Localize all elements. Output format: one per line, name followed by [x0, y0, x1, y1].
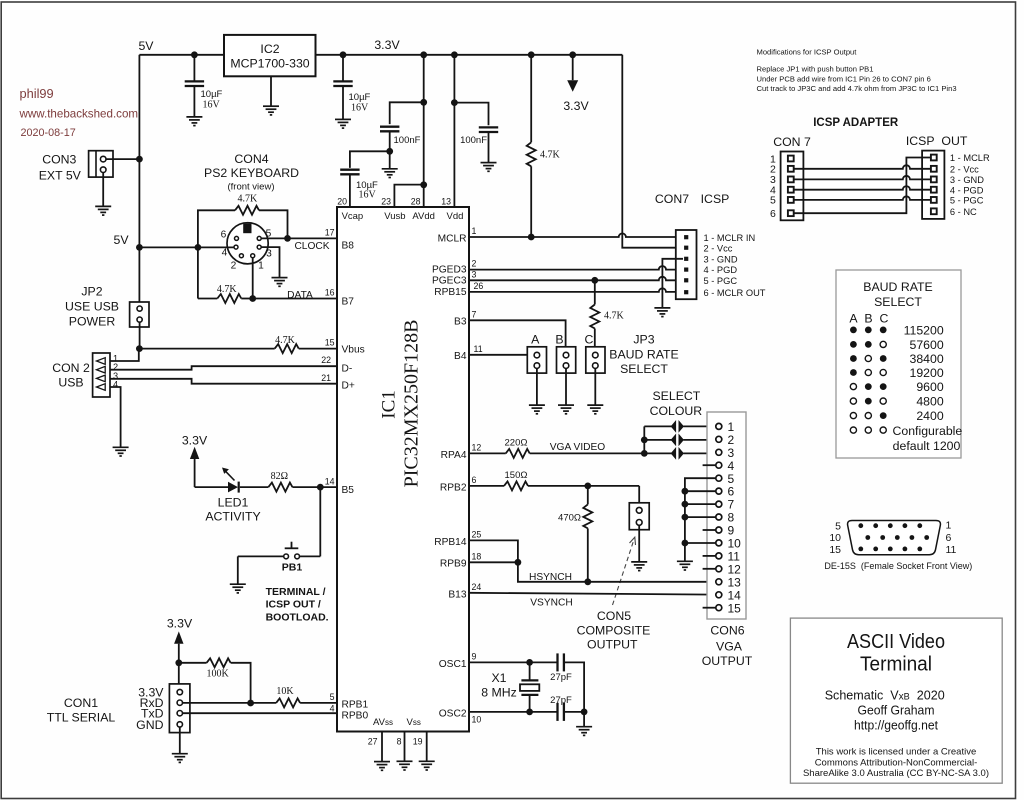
- CON6 pin 12: [716, 566, 722, 572]
- wire R5 left: [179, 662, 207, 664]
- wire RPB9: [469, 561, 518, 563]
- table dot: [865, 341, 872, 348]
- DE15 hole: [873, 523, 878, 528]
- svg-text:CON5: CON5: [597, 609, 631, 623]
- svg-text:2: 2: [472, 259, 477, 269]
- push button PB1: [295, 554, 300, 559]
- svg-text:150Ω: 150Ω: [505, 470, 528, 481]
- svg-text:9: 9: [728, 524, 735, 538]
- table dot: [850, 398, 856, 404]
- junction HSYNCH-470: [584, 578, 591, 585]
- wire CON6 gnd pin: [685, 516, 716, 518]
- svg-text:7: 7: [472, 309, 477, 319]
- svg-text:9600: 9600: [916, 380, 944, 394]
- wire CON3 gnd: [102, 173, 104, 207]
- wire CON6 pin 9 stub: [703, 529, 716, 531]
- ground Vss 19: [419, 761, 435, 770]
- svg-text:16V: 16V: [351, 102, 369, 113]
- CON7 pin 6: [684, 290, 688, 294]
- wire C1 bottom: [193, 86, 195, 117]
- CON4 pin 6: [235, 236, 239, 240]
- svg-text:Replace JP1 with push button P: Replace JP1 with push button PB1: [757, 65, 874, 74]
- wire 3.3V rail: [316, 54, 623, 56]
- wire CLOCK: [261, 237, 337, 239]
- junction RPB9: [515, 559, 522, 566]
- wire R-MCLR top: [530, 55, 532, 143]
- wire R5 right: [231, 663, 251, 703]
- svg-text:15: 15: [325, 338, 335, 348]
- svg-text:19: 19: [413, 737, 423, 747]
- svg-text:100K: 100K: [206, 668, 229, 679]
- junction 5V PS2: [136, 244, 143, 251]
- svg-text:26: 26: [474, 281, 484, 291]
- wire TxD: [183, 712, 338, 714]
- wire PB1 right: [299, 555, 320, 557]
- svg-text:D+: D+: [342, 381, 355, 392]
- svg-text:B: B: [555, 333, 563, 347]
- wire RxD: [183, 702, 251, 704]
- svg-text:VSYNCH: VSYNCH: [530, 597, 572, 608]
- svg-text:3: 3: [266, 249, 272, 260]
- wire diode D1 to CON6: [683, 425, 715, 427]
- svg-text:13: 13: [728, 575, 742, 589]
- CON6 pin 1: [716, 423, 722, 429]
- capacitor C2 10uF: [333, 81, 352, 86]
- wire JP3C gnd: [594, 368, 596, 405]
- wire to diode D3: [644, 452, 671, 454]
- junction CON6 gnd: [682, 514, 689, 521]
- wire R1 left: [198, 210, 235, 247]
- table dot: [850, 384, 856, 390]
- ground C2: [335, 119, 351, 128]
- table dot: [865, 413, 871, 419]
- wire 5V down to JP2: [138, 159, 140, 306]
- wire Vdd vertical: [453, 55, 455, 207]
- ground IC2: [263, 106, 279, 115]
- svg-text:JP2: JP2: [81, 285, 102, 299]
- table dot: [850, 327, 857, 334]
- DE15 hole: [873, 547, 878, 552]
- diode D2 colour select: [671, 435, 676, 446]
- svg-text:ASCII Video: ASCII Video: [847, 631, 945, 653]
- svg-text:3 - GND: 3 - GND: [704, 254, 738, 264]
- CON7 pin 3: [684, 257, 688, 261]
- CON4 pin 4: [234, 245, 238, 249]
- svg-text:5: 5: [835, 521, 841, 533]
- wire 470 bottom lead: [587, 528, 589, 581]
- svg-text:OUTPUT: OUTPUT: [702, 654, 753, 668]
- junction Vbus: [136, 345, 143, 352]
- junction 470ohm top: [584, 483, 591, 490]
- ground CON1: [172, 754, 188, 763]
- diode D3 colour select: [671, 448, 676, 459]
- wire JP2 to Vbus: [139, 322, 141, 348]
- ICSP OUT pin 5: [931, 197, 937, 203]
- svg-text:82Ω: 82Ω: [271, 471, 288, 482]
- svg-text:PGEC3: PGEC3: [432, 275, 467, 286]
- DE15 hole: [858, 523, 863, 528]
- connector CON6 VGA: [707, 412, 746, 619]
- junction AVdd rail: [420, 51, 427, 58]
- resistor R2 4.7K data pullup: [217, 294, 241, 303]
- CON6 pin 4: [716, 462, 722, 468]
- CON6 pin 14: [716, 592, 722, 598]
- wire C5 bottom: [488, 132, 490, 163]
- capacitor C1 10uF: [185, 81, 204, 86]
- junction C3-C4: [386, 148, 393, 155]
- svg-text:22: 22: [321, 355, 331, 365]
- svg-text:MCLR: MCLR: [438, 234, 467, 245]
- jumper JP3A: [527, 347, 546, 373]
- table dot: [880, 383, 887, 390]
- wire AVdd vertical: [423, 55, 425, 207]
- svg-text:115200: 115200: [904, 323, 944, 337]
- svg-text:DE-15S (Female Socket Front V: DE-15S (Female Socket Front View): [824, 561, 972, 571]
- DE15 hole: [924, 535, 929, 540]
- CON7 adapter pin 2: [788, 166, 794, 172]
- resistor R7 4.7K JP3: [590, 305, 599, 329]
- ground X1: [576, 727, 592, 736]
- LED1 emission arrow: [225, 471, 235, 481]
- svg-text:5: 5: [330, 692, 335, 702]
- svg-text:B3: B3: [454, 317, 467, 328]
- ground CON3: [95, 206, 111, 215]
- svg-text:4.7K: 4.7K: [217, 284, 238, 295]
- svg-text:X1: X1: [491, 671, 506, 685]
- ground CON7: [654, 308, 670, 317]
- CON2 pin 1 contact: [97, 358, 106, 365]
- wire CON6 gnd pin: [685, 542, 716, 544]
- svg-text:OSC2: OSC2: [439, 708, 467, 719]
- svg-text:B4: B4: [454, 351, 467, 362]
- wire adapter row y=168.8: [794, 165, 931, 169]
- wire 5V to pin4: [198, 246, 234, 248]
- table dot: [880, 398, 886, 404]
- svg-text:57600: 57600: [909, 338, 943, 352]
- svg-text:CON 2: CON 2: [52, 361, 90, 375]
- junction CON6 gnd: [682, 488, 689, 495]
- ground PB1: [230, 584, 246, 593]
- svg-text:TERMINAL /: TERMINAL /: [266, 586, 326, 598]
- svg-text:ICSP OUT: ICSP OUT: [906, 134, 968, 148]
- svg-text:POWER: POWER: [69, 315, 116, 329]
- svg-text:4.7K: 4.7K: [540, 149, 561, 160]
- CON7 adapter pin 3: [788, 177, 794, 183]
- wire to PB1: [319, 487, 321, 556]
- table dot: [865, 383, 872, 390]
- svg-text:B5: B5: [342, 485, 355, 496]
- wire C3 bottom: [389, 131, 391, 151]
- wire Vbus right: [299, 348, 337, 350]
- table dot: [865, 398, 872, 405]
- DE15 hole: [917, 547, 922, 552]
- junction OSC2: [526, 709, 533, 716]
- wire to CON5: [638, 486, 640, 507]
- svg-text:220Ω: 220Ω: [505, 438, 528, 449]
- CON4 pin 2: [239, 254, 243, 258]
- svg-text:5: 5: [770, 195, 776, 207]
- wire D-: [110, 366, 337, 370]
- svg-text:IC2: IC2: [260, 42, 279, 56]
- wire diode D3 to CON6: [683, 452, 715, 454]
- wire 5V to PS2: [139, 246, 198, 248]
- wire Vss 19: [426, 732, 428, 762]
- ICSP OUT pin 2: [931, 166, 937, 172]
- connector CON2 USB: [93, 353, 110, 397]
- svg-text:6 - MCLR OUT: 6 - MCLR OUT: [704, 288, 766, 298]
- svg-text:COLOUR: COLOUR: [650, 404, 703, 418]
- ground CON5: [631, 562, 647, 571]
- junction 5V-C1: [191, 51, 198, 58]
- svg-text:GND: GND: [136, 718, 163, 732]
- junction R-MCLR rail: [528, 51, 535, 58]
- ground C5: [481, 163, 497, 172]
- wire RPA4 left: [469, 452, 506, 454]
- wire C7 right: [564, 711, 584, 713]
- svg-text:AVdd: AVdd: [412, 211, 435, 222]
- resistor R5 100K: [207, 658, 231, 667]
- svg-text:1 - MCLR: 1 - MCLR: [950, 153, 990, 163]
- svg-text:5 - PGC: 5 - PGC: [950, 196, 984, 206]
- svg-text:http://geoffg.net: http://geoffg.net: [854, 719, 939, 733]
- resistor R3 4.7K Vbus: [275, 344, 299, 353]
- svg-text:7: 7: [728, 498, 735, 512]
- connector CON7 ICSP: [676, 230, 697, 299]
- CON7 pin 4: [684, 268, 688, 272]
- svg-text:JP3: JP3: [633, 333, 654, 347]
- svg-text:(front view): (front view): [228, 182, 275, 193]
- svg-text:6 - NC: 6 - NC: [950, 207, 977, 217]
- ground C1: [186, 117, 202, 126]
- svg-text:19200: 19200: [909, 366, 943, 380]
- svg-text:27: 27: [368, 737, 378, 747]
- svg-text:CLOCK: CLOCK: [294, 241, 329, 252]
- capacitor C3 100nF: [380, 127, 399, 132]
- wire CON6 gnd pin: [685, 490, 716, 492]
- svg-text:VGA VIDEO: VGA VIDEO: [550, 442, 606, 453]
- wire CON2 gnd: [110, 387, 121, 447]
- junction C3: [420, 99, 427, 106]
- wire HSYNCH: [518, 562, 716, 582]
- wire RPB15 net: [469, 288, 683, 292]
- CON6 pin 3: [716, 449, 722, 455]
- ICSP OUT pin 4: [931, 187, 937, 193]
- svg-text:This work is licensed under a: This work is licensed under a Creative: [816, 747, 977, 758]
- svg-text:2: 2: [728, 433, 735, 447]
- DE15 hole: [910, 535, 915, 540]
- wire Vbus left: [139, 348, 274, 350]
- CON2 pin 2 contact: [97, 366, 106, 373]
- svg-text:B13: B13: [448, 589, 466, 600]
- CON2 pin 4 contact: [97, 384, 106, 391]
- power flag 3.3V arrow: [567, 80, 578, 92]
- svg-text:16V: 16V: [203, 99, 221, 110]
- svg-text:A: A: [531, 333, 540, 347]
- junction RxD: [247, 700, 254, 707]
- annotation arrow CON5: [613, 540, 635, 606]
- table dot: [850, 369, 857, 376]
- table dot: [850, 355, 857, 362]
- wire C6 to gnd rail: [564, 662, 584, 712]
- svg-text:HSYNCH: HSYNCH: [529, 572, 572, 583]
- wire Vcc to CON7: [622, 55, 683, 248]
- ground Vss 8: [397, 761, 413, 770]
- wire VSYNCH: [469, 593, 716, 595]
- svg-text:5V: 5V: [138, 39, 154, 53]
- junction C7 gnd: [581, 709, 588, 716]
- wire LED anode: [194, 459, 196, 487]
- wire C2 top: [342, 55, 344, 81]
- svg-text:9: 9: [472, 651, 477, 661]
- ground CON2: [113, 447, 129, 456]
- resistor R6 10K: [276, 698, 300, 707]
- svg-text:12: 12: [728, 562, 742, 576]
- wire CON6 pin 15 stub: [703, 607, 716, 609]
- connector CON4 PS2 DIN socket: [227, 223, 268, 264]
- resistor R10 470ohm: [583, 504, 592, 528]
- baud rate select table: [836, 270, 961, 458]
- wire RPB14: [469, 540, 518, 560]
- svg-text:CON7: CON7: [655, 192, 689, 206]
- resistor R9 150ohm: [504, 481, 528, 490]
- wire to LED: [195, 486, 228, 488]
- wire diode D2 to CON6: [683, 439, 715, 441]
- jumper JP3C: [586, 347, 605, 373]
- connector CON7 adapter: [781, 152, 804, 221]
- wire RPB2 right: [528, 485, 639, 487]
- wire adapter row y=199.9: [794, 196, 931, 200]
- power flag 3.3V up arrow CON1: [174, 631, 183, 643]
- junction DATA: [249, 295, 256, 302]
- junction diode row3: [641, 450, 648, 457]
- junction CON3-5V: [136, 156, 143, 163]
- svg-text:Geoff Graham: Geoff Graham: [858, 704, 935, 718]
- junction B5-PB1: [317, 484, 324, 491]
- resistor 4.7K MCLR pullup: [527, 142, 536, 166]
- svg-text:12: 12: [472, 442, 482, 452]
- svg-text:A: A: [849, 311, 858, 325]
- CON7 pin 5: [684, 278, 688, 282]
- wire C5 top: [454, 103, 488, 126]
- wire Vss 8: [404, 732, 406, 762]
- svg-text:C: C: [880, 311, 889, 325]
- wire CON2 pin1 to Vbus: [110, 352, 139, 362]
- svg-text:Vusb: Vusb: [384, 211, 405, 222]
- svg-text:3.3V: 3.3V: [563, 99, 589, 113]
- svg-text:LED1: LED1: [218, 496, 249, 510]
- svg-text:RPB2: RPB2: [440, 482, 467, 493]
- wire adapter MCLR crossover: [794, 158, 931, 214]
- CON6 pin 8: [716, 514, 722, 520]
- DE15 hole: [888, 523, 893, 528]
- junction PGEC3-4.7K: [591, 277, 598, 284]
- wire PB1 gnd: [237, 556, 239, 584]
- DE15 hole: [895, 535, 900, 540]
- svg-text:OUTPUT: OUTPUT: [587, 637, 638, 651]
- svg-text:27pF: 27pF: [550, 695, 572, 706]
- wire R4 to B5: [292, 486, 337, 488]
- table dot: [880, 355, 887, 362]
- svg-text:2: 2: [231, 261, 237, 272]
- capacitor C7 27pF: [558, 703, 564, 721]
- wire PGED3 net: [469, 266, 683, 270]
- svg-text:Commons Attribution-NonCommerc: Commons Attribution-NonCommercial-: [815, 757, 978, 768]
- svg-text:CON1: CON1: [64, 696, 98, 710]
- wire C3 top: [390, 102, 424, 124]
- svg-text:B8: B8: [342, 240, 355, 251]
- svg-text:11: 11: [946, 544, 957, 556]
- wire xtal gnd: [583, 712, 585, 727]
- diode D1 colour select: [671, 421, 676, 432]
- power flag 3.3V up arrow LED: [190, 447, 199, 459]
- svg-text:ICSP: ICSP: [701, 192, 730, 206]
- wire PS2 pin3 gnd: [261, 247, 279, 278]
- svg-text:16V: 16V: [359, 189, 377, 200]
- junction 3.3V flag: [569, 51, 576, 58]
- svg-text:RPB9: RPB9: [440, 559, 467, 570]
- svg-text:TTL SERIAL: TTL SERIAL: [47, 711, 116, 725]
- ground CON6 bus: [677, 561, 693, 570]
- svg-text:10: 10: [472, 715, 482, 725]
- svg-text:Terminal: Terminal: [860, 654, 932, 676]
- wire PGEC3 net: [469, 277, 683, 281]
- svg-text:Schematic VxB 2020: Schematic VxB 2020: [825, 688, 945, 703]
- svg-text:Modifications for ICSP Output: Modifications for ICSP Output: [757, 48, 858, 57]
- svg-text:3.3V: 3.3V: [374, 38, 400, 52]
- wire C2 bottom: [342, 86, 344, 119]
- wire R2 left vertical: [197, 247, 199, 298]
- DE15 hole: [917, 523, 922, 528]
- wire RPB2 left: [469, 485, 504, 487]
- svg-text:3: 3: [728, 446, 735, 460]
- wire CON6 gnd bus: [685, 478, 716, 561]
- junction CLOCK: [284, 235, 291, 242]
- wire LED cathode: [240, 486, 269, 488]
- wire OSC2: [469, 711, 558, 713]
- wire B3 to JP3B: [469, 320, 566, 352]
- svg-text:PS2 KEYBOARD: PS2 KEYBOARD: [204, 166, 299, 180]
- CON6 pin 5: [716, 475, 722, 481]
- wire R1 right: [259, 210, 288, 238]
- ground JP3B: [558, 405, 574, 414]
- svg-text:B: B: [864, 311, 872, 325]
- wire 4.7K JP3 top: [594, 280, 596, 304]
- DE15 hole: [858, 547, 863, 552]
- svg-text:21: 21: [321, 373, 331, 383]
- wire 5V rail: [139, 54, 224, 56]
- svg-text:5 - PGC: 5 - PGC: [704, 276, 738, 286]
- table dot: [865, 369, 871, 375]
- wire CON1 3.3V: [178, 644, 180, 690]
- wire C4 to Vcap: [349, 174, 351, 207]
- svg-text:RPA4: RPA4: [441, 450, 467, 461]
- CON6 pin 10: [716, 540, 722, 546]
- svg-text:phil99: phil99: [20, 86, 54, 101]
- wire CON3 to 5V: [106, 158, 139, 160]
- connector CON5 composite: [629, 503, 649, 530]
- svg-text:4: 4: [222, 248, 228, 259]
- jumper JP2: [130, 302, 149, 327]
- svg-text:B7: B7: [342, 297, 355, 308]
- table dot: [865, 327, 872, 334]
- wire DATA: [253, 298, 337, 300]
- wire PS2 pin1 down: [252, 258, 254, 299]
- CON4 pin 5: [257, 236, 261, 240]
- svg-text:CON4: CON4: [234, 152, 268, 166]
- junction CON6 gnd: [682, 540, 689, 547]
- svg-text:4800: 4800: [916, 395, 944, 409]
- wire OSC1: [469, 661, 557, 663]
